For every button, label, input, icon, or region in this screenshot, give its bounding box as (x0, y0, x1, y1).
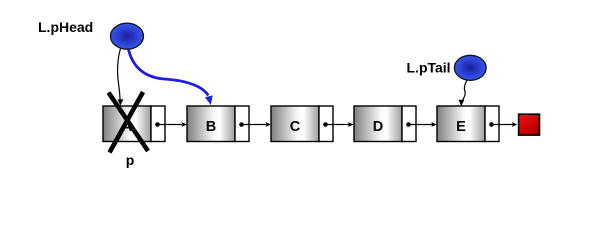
svg-text:L.pHead: L.pHead (38, 19, 93, 35)
svg-text:L.pTail: L.pTail (407, 60, 451, 76)
wire: blue curved arrow from L.pHead ball to node B (129, 50, 213, 106)
wire: arrow node C to node D (326, 122, 354, 127)
svg-text:E: E (456, 119, 466, 135)
wire: arrow node D to node E (409, 122, 437, 127)
pointer ball L.pTail (454, 55, 486, 80)
wire: arrow node A to node B (158, 122, 187, 127)
svg-text:C: C (290, 119, 301, 135)
wire: thin arrow from L.pHead ball to node A (118, 49, 124, 106)
wire: thin arrow from L.pTail ball to node E (458, 80, 467, 106)
node E (437, 106, 499, 142)
pointer ball L.pHead (111, 23, 144, 49)
svg-text:p: p (126, 152, 135, 168)
null terminator (red square) (519, 114, 540, 135)
node D (354, 106, 416, 142)
svg-text:D: D (373, 119, 383, 135)
wire: arrow node B to node C (242, 122, 271, 127)
X cross over node A (109, 92, 149, 153)
svg-text:B: B (206, 119, 216, 135)
wire: arrow node E to null terminator (492, 122, 518, 127)
node C (271, 106, 333, 142)
node B (187, 106, 249, 142)
node A (crossed out) (103, 106, 165, 142)
